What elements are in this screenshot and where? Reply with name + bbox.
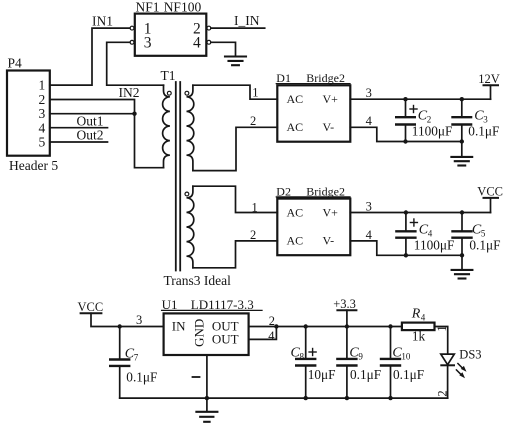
wire VCC to U1 IN [91,313,164,326]
NF1 pin 3 circle [130,40,134,44]
LED arrow 1 [458,364,463,369]
svg-text:3: 3 [144,35,152,52]
svg-text:AC: AC [287,92,304,106]
svg-text:T1: T1 [161,68,176,83]
LED DS3 [441,354,455,365]
ground under NF1 pin4 [225,57,246,66]
wire P4 pin2 down to primary bottom [50,100,164,168]
junction dot C5 top [460,210,464,214]
svg-text:AC: AC [287,233,304,247]
regulator U1 box [164,313,249,355]
power net 12V [490,85,492,99]
svg-text:7: 7 [134,352,139,362]
svg-text:1: 1 [252,201,258,215]
svg-text:8: 8 [300,351,305,361]
wire NF1 pin4 to ground [211,42,236,56]
wire NF1 pin3 to transformer primary top [107,42,164,85]
svg-text:12V: 12V [478,72,500,86]
ground under C5 rail [461,255,463,269]
svg-text:VCC: VCC [78,300,104,314]
D2 label underline [276,196,350,198]
svg-text:3: 3 [136,313,142,327]
svg-text:10: 10 [401,351,411,361]
svg-text:1k: 1k [412,329,426,344]
T1 primary winding [163,85,170,168]
svg-text:Out2: Out2 [77,128,104,143]
capacitor C10 [390,327,392,399]
svg-text:0.1μF: 0.1μF [469,237,500,252]
capacitor C9 [346,327,348,399]
junction dot C2 bottom [403,139,407,143]
wire LED to ground rail [447,365,449,398]
wire P4 pin5 Out2 stub [50,141,108,143]
capacitor C5 [461,213,463,256]
T1 secondary 1 phase dot [185,91,189,95]
svg-text:10μF: 10μF [308,367,336,382]
wire P4 pin4 Out1 stub [50,127,108,129]
junction dot C3 bottom [460,139,464,143]
T1 primary phase dot [167,91,171,95]
svg-text:0.1μF: 0.1μF [350,367,381,382]
svg-text:3: 3 [366,86,372,100]
svg-text:IN2: IN2 [119,85,140,100]
svg-text:1: 1 [435,325,449,331]
svg-text:Bridge2: Bridge2 [306,71,345,85]
svg-text:2: 2 [250,228,256,242]
junction dot C5 bottom [460,253,464,257]
U1 label underline [162,309,262,311]
NF1 pin 4 circle [207,40,211,44]
svg-text:NF100: NF100 [164,0,202,15]
T1 secondary 1 winding [187,85,194,170]
ground under C3 rail [461,142,463,157]
junction dot C8 bottom [304,396,308,400]
svg-text:Bridge2: Bridge2 [306,184,345,198]
bottom ground rail [120,397,448,399]
wire D1 V+ to 12V rail [350,98,490,100]
svg-text:V-: V- [323,233,335,247]
svg-text:U1: U1 [162,297,178,312]
wire NF1 pin2 I_IN stub [211,27,265,29]
svg-text:4: 4 [421,313,426,323]
svg-text:V-: V- [323,120,335,134]
svg-text:0.1μF: 0.1μF [468,124,499,139]
svg-text:IN: IN [172,319,186,334]
svg-text:2: 2 [435,390,449,396]
svg-text:4: 4 [268,329,275,343]
svg-text:V+: V+ [323,92,339,106]
capacitor C7 [119,327,121,399]
svg-text:5: 5 [39,135,46,150]
junction dot pin2/pin4 [274,324,278,328]
svg-text:1: 1 [252,86,258,100]
capacitor C4 [405,213,407,256]
C8 plus sign [309,349,316,356]
svg-text:Header 5: Header 5 [9,158,58,173]
wire secondary1 bottom to D1 pin2 [193,127,277,170]
wire secondary1 top to D1 pin1 [193,85,277,99]
wire U1 GND to ground rail [206,355,208,412]
C4 plus sign [410,219,417,226]
wire D1 V- to ground rail [350,127,462,141]
transformer T1 core [176,82,180,271]
svg-text:AC: AC [287,205,304,219]
svg-text:NF1: NF1 [136,0,160,15]
svg-text:4: 4 [193,35,201,52]
wire D2 V+ to VCC rail [350,212,490,214]
T1 secondary 2 winding [187,186,194,268]
filter NF1 box [135,14,207,56]
resistor R4 [402,323,435,331]
power net VCC [490,198,492,213]
junction dot U1 gnd rail [205,396,209,400]
svg-text:OUT: OUT [212,332,239,347]
svg-text:+3.3: +3.3 [333,297,356,311]
svg-text:VCC: VCC [477,185,503,199]
svg-text:Trans3 Ideal: Trans3 Ideal [164,273,232,288]
C2 plus sign [410,106,417,113]
svg-text:4: 4 [366,228,373,242]
svg-text:P4: P4 [8,56,23,71]
svg-text:3: 3 [39,106,46,121]
svg-text:R: R [411,307,421,322]
junction dot C3 top [460,97,464,101]
capacitor C2 [405,99,407,141]
svg-text:GND: GND [192,319,207,347]
junction dot P4 pin3 [132,112,136,116]
ground under U1 [196,412,217,422]
capacitor C8 [305,327,307,399]
junction dot C4 bottom [404,253,408,257]
junction dot C2 top [403,97,407,101]
svg-text:IN1: IN1 [92,14,113,29]
svg-text:2: 2 [269,314,275,328]
svg-text:AC: AC [287,120,304,134]
svg-text:4: 4 [39,120,46,135]
wire secondary2 bottom to D2 pin2 [193,241,277,268]
svg-text:9: 9 [358,351,363,361]
svg-text:LD1117-3.3: LD1117-3.3 [191,297,254,312]
wire P4 pin3 to junction [50,113,135,115]
wire D2 V- to ground rail [350,241,462,255]
svg-text:V+: V+ [323,205,339,219]
svg-text:1100μF: 1100μF [412,124,453,139]
junction dot C10 bottom [388,396,392,400]
junction dot C9 top [345,324,349,328]
svg-text:1: 1 [39,78,46,93]
capacitor C3 [461,99,463,141]
svg-text:0.1μF: 0.1μF [393,367,424,382]
junction dot C9 bottom [345,396,349,400]
wire P4 pin1 to IN1 vertical [50,28,130,85]
wire U1 pin4 [249,327,277,340]
svg-text:0.1μF: 0.1μF [126,370,157,385]
LED arrow 2 [456,370,461,375]
svg-text:2: 2 [250,114,256,128]
junction dot C10 top [388,324,392,328]
svg-text:2: 2 [39,92,46,107]
connector P4 [7,71,50,156]
junction dot C4 top [404,210,408,214]
NF1 pin 2 circle [207,26,211,30]
wire U1 pin2 output rail [249,326,402,328]
wire secondary2 top to D2 pin1 [193,186,277,212]
wire R4 to LED [435,327,448,355]
junction dot C8 top [304,324,308,328]
svg-text:4: 4 [366,114,373,128]
svg-text:D2: D2 [276,184,291,198]
svg-text:I_IN: I_IN [234,13,260,28]
junction dot C7 top [118,324,122,328]
bridge D2 box [277,199,350,256]
svg-text:1100μF: 1100μF [414,237,455,252]
D1 label underline [276,83,350,85]
svg-text:Out1: Out1 [77,113,104,128]
svg-text:DS3: DS3 [459,347,481,361]
bridge D1 box [277,85,350,141]
svg-text:D1: D1 [276,71,291,85]
minus mark near U1 gnd [193,376,200,378]
svg-text:3: 3 [366,199,372,213]
NF1 pin 1 circle [130,26,134,30]
T1 secondary 2 phase dot [185,192,189,196]
